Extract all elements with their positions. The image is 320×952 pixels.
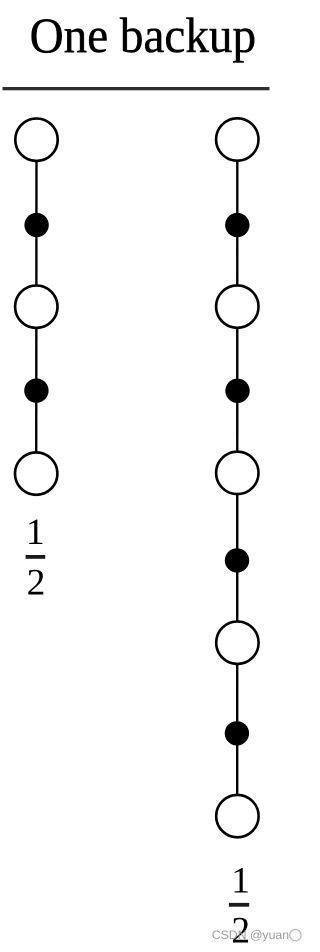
state circle L2 (15, 286, 57, 328)
state circle L1 (15, 119, 57, 161)
svg-text:CSDN @yuan: CSDN @yuan (212, 928, 290, 942)
action dot R1 (225, 213, 249, 237)
wire: right chain spine (236, 140, 239, 817)
state circle L3 (15, 452, 57, 494)
watermark avatar circle (290, 929, 301, 940)
action dot R4 (225, 721, 249, 745)
state circle R5 (216, 795, 258, 837)
svg-text:1: 1 (26, 512, 45, 553)
action dot R3 (225, 548, 249, 572)
action dot L1 (24, 213, 48, 237)
action dot R2 (225, 379, 249, 403)
svg-text:1: 1 (231, 861, 250, 902)
state circle R1 (216, 118, 258, 160)
svg-text:2: 2 (27, 563, 46, 604)
state circle R4 (216, 622, 258, 664)
svg-text:One backup: One backup (30, 8, 257, 63)
horizontal rule under title (3, 87, 270, 90)
state circle R3 (216, 452, 258, 494)
state circle R2 (216, 285, 258, 327)
label: right fraction bar (229, 903, 249, 907)
label: left fraction bar (26, 555, 46, 559)
action dot L2 (24, 378, 48, 402)
wire: left chain spine (35, 140, 38, 474)
